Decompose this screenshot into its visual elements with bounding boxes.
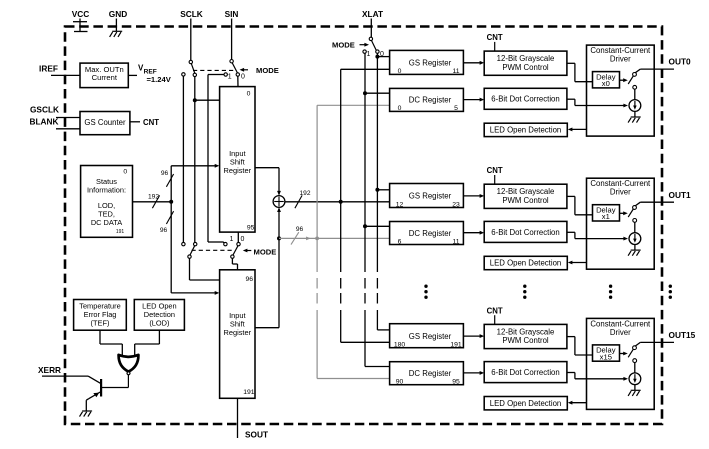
ellipsis between channels col1 (424, 285, 427, 288)
svg-text:0: 0 (398, 105, 402, 112)
svg-text:VCC: VCC (72, 9, 90, 19)
block LED Open Detection (484, 256, 567, 269)
block Delay x15 (593, 345, 620, 361)
svg-text:CNT: CNT (487, 306, 503, 315)
ellipsis between channels col3 (609, 285, 612, 288)
svg-text:GSCLK: GSCLK (30, 105, 59, 115)
wire net S1b-1 elbow (208, 74, 224, 76)
wire SR1 output to adder (255, 167, 279, 169)
DC Register 6-11 (390, 222, 464, 245)
bus slash 192 status (152, 195, 159, 208)
svg-text:11: 11 (452, 68, 459, 75)
svg-text:23: 23 (452, 201, 460, 208)
svg-text:12-Bit Grayscale: 12-Bit Grayscale (497, 54, 555, 63)
wire DC latch bus vertical (364, 53, 366, 272)
block Temperature Error Flag (74, 300, 127, 331)
svg-text:=1.24V: =1.24V (147, 75, 172, 84)
wire VREF output (128, 74, 137, 76)
svg-text:(TEF): (TEF) (91, 319, 110, 328)
svg-text:DC Register: DC Register (409, 369, 452, 378)
adder sum node (273, 196, 285, 208)
pin SOUT (237, 398, 239, 438)
svg-text:191: 191 (243, 389, 255, 396)
svg-text:90: 90 (396, 379, 404, 386)
ground in driver (631, 116, 641, 118)
switch S2a contact left (182, 242, 185, 245)
svg-text:192: 192 (299, 190, 310, 197)
wire Delay to switch (620, 353, 625, 355)
node junction GS latch ch0 (375, 55, 379, 59)
svg-text:191: 191 (450, 342, 462, 349)
wire NOR output to transistor base (127, 375, 129, 388)
wire status feedback into shift register 1 (171, 165, 215, 167)
svg-text:96: 96 (246, 276, 254, 283)
wire switch to current source (634, 363, 636, 374)
svg-text:0: 0 (123, 169, 127, 176)
wire GS Register to PWM (463, 195, 480, 197)
wire adder output 192 bus (285, 201, 390, 203)
switch S1b contact 1 (224, 73, 227, 76)
switch S2a lever (190, 246, 195, 255)
wire TEF to NOR gate (99, 330, 101, 344)
wire GS latch bus vertical (376, 53, 378, 272)
block Status Information (81, 166, 133, 238)
switch output driver lever (628, 349, 633, 357)
svg-text:96: 96 (161, 170, 169, 177)
switch S2a pole (188, 255, 191, 258)
svg-text:DC Register: DC Register (409, 96, 452, 105)
NOR gate (119, 355, 139, 372)
svg-text:Driver: Driver (610, 188, 631, 197)
wire switch to OUT pin (635, 342, 640, 346)
switch S2b contact 1 (224, 242, 227, 245)
node junction DC latch ch1 (363, 224, 367, 228)
svg-text:6-Bit Dot Correction: 6-Bit Dot Correction (491, 228, 559, 237)
bus slash 96 upper (166, 174, 173, 187)
node junction GS data bus (339, 200, 343, 204)
svg-text:12-Bit Grayscale: 12-Bit Grayscale (497, 187, 555, 196)
svg-text:1: 1 (230, 236, 234, 243)
svg-text:SIN: SIN (225, 9, 239, 19)
switch XLAT lever (372, 41, 377, 52)
GS Register 12-23 (390, 184, 464, 208)
switch output driver lever (628, 76, 633, 84)
switch S1a SCLK pole (189, 60, 192, 63)
ground in driver (631, 249, 641, 251)
block Max. OUTn Current (80, 63, 128, 88)
wire SCLK into shift register 1 (195, 99, 220, 101)
GS Register 180-191 (390, 324, 464, 348)
wire switch to OUT pin (635, 202, 640, 206)
switch S2b contact 0 (237, 242, 240, 245)
svg-text:192: 192 (148, 193, 159, 200)
block 6-Bit Dot Correction (484, 221, 567, 242)
svg-text:MODE: MODE (332, 41, 355, 50)
wire DC latch to DC register 15 (365, 366, 390, 368)
wire LOD to NOR gate (158, 330, 160, 344)
bus slash 96 gray (291, 232, 299, 244)
GS Register 0-11 (390, 50, 464, 74)
switch S1b contact 0 (236, 73, 239, 76)
node junction gray bus origin (277, 236, 281, 240)
svg-text:191: 191 (116, 229, 125, 235)
svg-text:LED Open Detection: LED Open Detection (490, 399, 562, 408)
svg-text:96: 96 (296, 226, 304, 233)
block LED Open Detection (484, 123, 567, 136)
DC Register 0-5 (390, 88, 464, 111)
switch S1a contact 0 (193, 73, 196, 76)
wire DC Register to Dot Correction (463, 232, 480, 234)
wire status bus vertical (170, 166, 172, 293)
switch S2a contact right (194, 242, 197, 245)
block GS Counter (80, 112, 130, 135)
switch output driver lever (628, 209, 633, 217)
svg-text:GND: GND (109, 9, 127, 19)
ellipsis between channels col2 (523, 285, 526, 288)
wire Dot Correction to current source (567, 231, 575, 233)
wire emitter to ground (86, 399, 88, 401)
svg-text:6-Bit Dot Correction: 6-Bit Dot Correction (491, 368, 559, 377)
wire Dot Correction to current source (567, 98, 575, 100)
switch coupling dashed link upper (193, 69, 236, 71)
wire GS Register to PWM (463, 62, 480, 64)
wire SIN 0-contact into SR1 (237, 76, 239, 86)
svg-text:1: 1 (367, 51, 371, 58)
current source (629, 233, 641, 245)
svg-text:PWM Control: PWM Control (502, 63, 549, 72)
wire DC Register to Dot Correction (463, 99, 480, 101)
svg-text:LED Open Detection: LED Open Detection (490, 126, 562, 135)
wire net S1a-1 to S2a-1 (182, 76, 184, 244)
block Delay x1 (593, 205, 620, 221)
node junction DC latch ch0 (363, 91, 367, 95)
current source (629, 373, 641, 385)
svg-text:OUT1: OUT1 (669, 190, 692, 200)
svg-text:Driver: Driver (610, 328, 631, 337)
svg-text:Register: Register (224, 328, 252, 337)
transistor Q1 collector (88, 376, 101, 384)
switch output driver contact a (633, 346, 637, 350)
wire switch to current source (634, 89, 636, 100)
block LED Open Detection (484, 397, 567, 410)
block 12-Bit Grayscale PWM Control (484, 324, 567, 348)
wire SR1 output down (237, 232, 239, 242)
node gray junction (315, 237, 319, 241)
wire CNT output (130, 121, 140, 123)
wire DC latch to DC register 0 (365, 92, 390, 94)
ground in driver (631, 389, 641, 391)
svg-text:IREF: IREF (39, 64, 58, 74)
svg-text:6: 6 (398, 238, 402, 245)
svg-text:6-Bit Dot Correction: 6-Bit Dot Correction (491, 95, 559, 104)
wire GS data bus to GS register 0 (341, 68, 390, 70)
svg-text:GS Register: GS Register (409, 332, 452, 341)
svg-text:GS Register: GS Register (409, 59, 452, 68)
wire DC latch to DC register 1 (365, 225, 390, 227)
switch output driver contact b (633, 219, 637, 223)
wire GS data bus to GS register 15 (341, 341, 390, 343)
wire S2a pole into SR2 (189, 258, 191, 280)
node junction SCLK into SR1 (193, 98, 197, 102)
block 6-Bit Dot Correction (484, 88, 567, 109)
switch output driver contact b (633, 85, 637, 89)
wire S2b pole into SR2 (231, 258, 233, 264)
wire current source to ground (634, 245, 636, 250)
svg-text:12-Bit Grayscale: 12-Bit Grayscale (497, 327, 555, 336)
block Input Shift Register 1 (220, 87, 255, 233)
wire gray bus to DC register 15 (317, 378, 390, 380)
svg-text:11: 11 (452, 238, 459, 245)
svg-text:Information:: Information: (87, 186, 126, 195)
svg-text:96: 96 (160, 227, 168, 234)
svg-text:GS Register: GS Register (409, 192, 452, 201)
svg-text:GS Counter: GS Counter (84, 118, 126, 127)
svg-text:x0: x0 (602, 79, 610, 88)
wire GS latch to GS register 0 (377, 56, 389, 58)
svg-text:PWM Control: PWM Control (502, 336, 549, 345)
svg-text:LED Open Detection: LED Open Detection (490, 259, 562, 268)
block Input Shift Register 2 (220, 270, 255, 399)
svg-text:DC DATA: DC DATA (91, 218, 122, 227)
svg-text:Driver: Driver (610, 55, 631, 64)
block Delay x0 (593, 72, 620, 88)
svg-text:Temperature: Temperature (79, 301, 121, 310)
wire PWM to Delay (567, 195, 575, 197)
wire PWM to Delay (567, 336, 575, 338)
svg-text:0: 0 (241, 74, 245, 81)
wire switch to current source (634, 222, 636, 233)
switch S1b SIN pole (230, 60, 233, 63)
svg-text:95: 95 (452, 379, 460, 386)
block LED Open Detection LOD (134, 300, 184, 331)
switch XLAT pole (369, 37, 372, 40)
svg-text:0: 0 (241, 236, 245, 243)
switch coupling dashed link lower (192, 249, 234, 251)
switch S1b lever (232, 63, 237, 73)
svg-text:OUT0: OUT0 (669, 57, 692, 67)
svg-text:0: 0 (247, 91, 251, 98)
switch S2b lever (233, 246, 238, 255)
svg-text:CNT: CNT (487, 166, 503, 175)
wire 192-bit status bus (133, 201, 172, 203)
svg-text:XERR: XERR (38, 365, 61, 375)
svg-text:180: 180 (394, 342, 406, 349)
node junction GS latch ch1 (375, 188, 379, 192)
block 6-Bit Dot Correction (484, 362, 567, 383)
switch S1a contact 1 (182, 73, 185, 76)
svg-text:MODE: MODE (254, 247, 277, 256)
svg-text:MODE: MODE (256, 66, 279, 75)
transistor Q1 base bar (100, 379, 102, 397)
svg-text:x15: x15 (600, 352, 612, 361)
wire Delay to switch (620, 79, 625, 81)
switch output driver contact a (633, 206, 637, 210)
svg-text:PWM Control: PWM Control (502, 196, 549, 205)
svg-text:OUT15: OUT15 (669, 330, 696, 340)
svg-text:Error Flag: Error Flag (84, 310, 117, 319)
wire current source to ground (634, 385, 636, 390)
svg-text:DC Register: DC Register (409, 229, 452, 238)
svg-text:Current: Current (92, 73, 118, 82)
wire status feedback into shift register 2 (171, 292, 215, 294)
wire GS latch to GS register 1 (377, 189, 389, 191)
block 12-Bit Grayscale PWM Control (484, 184, 567, 208)
switch XLAT contact 1 (363, 50, 366, 53)
ellipsis between channels col4 (669, 285, 672, 288)
wire LED open detection input (570, 402, 587, 404)
wire net S1a-0 down (194, 77, 196, 245)
wire PWM to Delay (567, 62, 575, 64)
wire gray bus vertical (316, 105, 318, 238)
block Constant-Current Driver (587, 45, 655, 136)
svg-text:0: 0 (380, 51, 384, 58)
transistor Q1 emitter (89, 392, 101, 399)
svg-text:95: 95 (247, 225, 255, 232)
block 12-Bit Grayscale PWM Control (484, 51, 567, 75)
switch output driver contact a (633, 73, 637, 77)
svg-text:LED Open: LED Open (142, 301, 177, 310)
wire DC Register to Dot Correction (463, 372, 480, 374)
svg-text:XLAT: XLAT (362, 9, 383, 19)
switch S1a lever (191, 64, 194, 73)
svg-text:SCLK: SCLK (180, 9, 203, 19)
block Constant-Current Driver (587, 178, 655, 269)
wire GS latch to GS register 15 (377, 329, 389, 331)
wire GS Register to PWM (463, 335, 480, 337)
svg-text:Register: Register (224, 166, 252, 175)
svg-text:SOUT: SOUT (245, 429, 268, 439)
wire switch to OUT pin (635, 69, 640, 73)
wire LED open detection input (570, 262, 587, 264)
svg-text:CNT: CNT (143, 118, 159, 127)
ground symbol at GND pin (112, 30, 122, 32)
svg-text:5: 5 (454, 105, 458, 112)
bus slash 96 lower (166, 211, 173, 224)
svg-text:BLANK: BLANK (29, 117, 58, 127)
DC Register 90-95 (390, 362, 464, 385)
wire gray DC data bus horizontal (279, 237, 390, 239)
svg-text:x1: x1 (602, 212, 610, 221)
block Constant-Current Driver (587, 318, 655, 409)
node junction on status bus (169, 200, 173, 204)
svg-text:12: 12 (396, 201, 404, 208)
wire GS data bus vertical (340, 69, 342, 272)
switch output driver contact b (633, 359, 637, 363)
wire Dot Correction to current source (567, 372, 575, 374)
bus slash 192 adder (295, 195, 302, 208)
svg-text:1: 1 (228, 74, 232, 81)
svg-text:0: 0 (398, 68, 402, 75)
wire gray bus to DC register 0 (317, 104, 390, 106)
wire LED open detection input (570, 128, 587, 130)
ground at XERR transistor (82, 410, 92, 412)
svg-text:CNT: CNT (487, 33, 503, 42)
switch XLAT contact 0 (376, 50, 379, 53)
svg-text:Detection: Detection (144, 310, 175, 319)
wire current source to ground (634, 111, 636, 116)
wire Delay to switch (620, 212, 625, 214)
switch S2b pole (231, 255, 234, 258)
gray bus arrowhead (306, 237, 311, 241)
svg-text:(LOD): (LOD) (149, 319, 169, 328)
current source (629, 100, 641, 112)
wire SR2 output to adder (255, 327, 279, 329)
chip boundary dashed border (65, 27, 662, 425)
